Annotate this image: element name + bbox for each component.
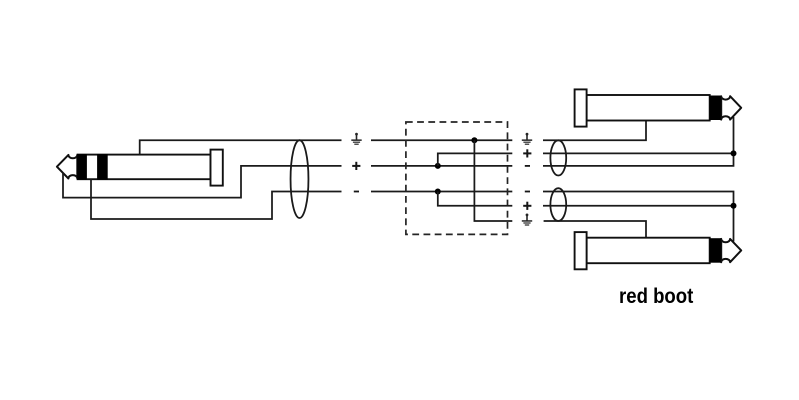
plug J3 mono TS jack (lower right)	[575, 232, 742, 269]
wire: lower minus line down to J3 tip	[543, 192, 734, 242]
wire: minus branch down to lower plus line	[438, 192, 513, 206]
wire: lower ground to J3 sleeve	[544, 221, 646, 238]
wire: upper minus line up to J2 tip	[543, 117, 734, 166]
plus symbol left	[352, 162, 360, 170]
plus symbol upper right	[523, 149, 531, 157]
J2 collar	[575, 89, 587, 126]
node dot lower plus at J3 tip	[731, 203, 737, 209]
J3 body sleeve	[587, 238, 710, 264]
wire: ground branch down to lower ground line	[474, 140, 512, 221]
wire: upper ground to J2 sleeve	[543, 121, 646, 141]
node dot upper plus at J2 tip	[731, 150, 737, 156]
J2 tip insulator band	[710, 96, 721, 121]
J1 tip insulator band 1	[77, 154, 87, 180]
node dot on plus line	[435, 163, 441, 169]
wire: J1 sleeve to ground line	[140, 140, 342, 154]
minus symbol lower right	[525, 191, 530, 193]
lower cable shield ellipse	[550, 188, 566, 221]
label red boot	[619, 285, 693, 309]
junction dashed box	[406, 122, 508, 234]
ground symbol lower right	[522, 214, 532, 226]
upper cable shield ellipse	[550, 140, 566, 175]
ground symbol upper right	[522, 133, 532, 145]
node dot on minus line	[435, 189, 441, 195]
wire: lower plus line to J3 tip junction	[543, 205, 734, 207]
J1 body sleeve	[78, 155, 211, 180]
plug J1 stereo TRS jack (left)	[57, 150, 223, 186]
minus symbol upper right	[525, 165, 530, 167]
J3 tip arrow	[721, 239, 741, 262]
J2 tip arrow	[721, 96, 741, 119]
J3 collar	[575, 232, 587, 269]
wire: plus line segment into junction box	[371, 165, 512, 167]
J3 tip insulator band	[710, 238, 721, 263]
left cable shield ellipse	[291, 140, 309, 218]
J1 tip arrow	[57, 155, 77, 179]
ground symbol left	[351, 133, 361, 145]
node dot on ground line	[471, 137, 477, 143]
wire: upper plus line to J2 tip junction	[543, 152, 734, 154]
J1 collar	[211, 150, 223, 186]
plus symbol lower right	[523, 202, 531, 210]
minus symbol left	[354, 191, 359, 193]
wire: ground line segment into junction box	[371, 139, 512, 141]
J2 body sleeve	[587, 95, 710, 121]
wire: plus branch up to upper plus line	[438, 153, 513, 166]
wire: J1 ring down and to minus line	[91, 179, 342, 219]
wire: J1 tip down and to plus line	[63, 166, 342, 198]
plug J2 mono TS jack (upper right)	[575, 89, 742, 126]
J1 ring insulator band 2	[97, 154, 108, 180]
wire: minus line segment into junction box	[371, 191, 512, 193]
